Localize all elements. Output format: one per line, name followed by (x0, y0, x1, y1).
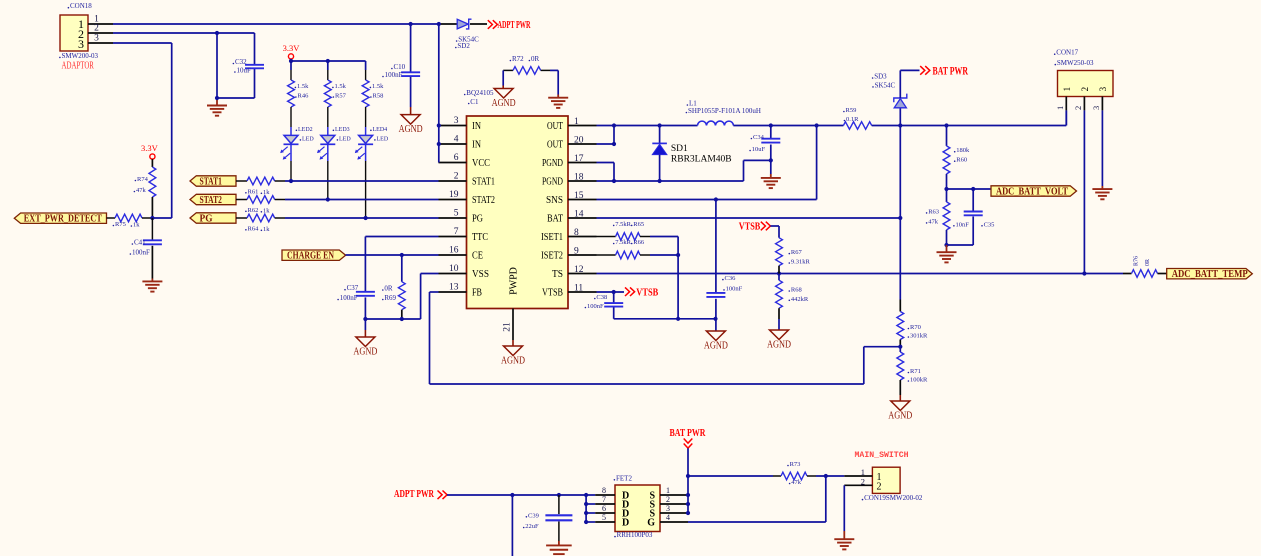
svg-text:G: G (647, 518, 655, 529)
svg-text:TTC: TTC (472, 232, 488, 243)
svg-text:ADC_BATT_TEMP: ADC_BATT_TEMP (1172, 269, 1248, 280)
svg-text:C34: C34 (753, 134, 765, 141)
svg-text:13: 13 (449, 282, 459, 292)
svg-text:VTSB: VTSB (636, 286, 658, 298)
svg-text:12: 12 (574, 265, 584, 275)
svg-text:PG: PG (472, 214, 483, 225)
svg-text:MAIN_SWITCH: MAIN_SWITCH (855, 451, 909, 460)
svg-text:6: 6 (454, 153, 459, 163)
svg-text:STAT2: STAT2 (200, 195, 222, 206)
svg-text:EXT_PWR_DETECT: EXT_PWR_DETECT (24, 214, 102, 225)
svg-text:SK54C: SK54C (875, 81, 896, 89)
svg-text:BAT PWR: BAT PWR (670, 428, 706, 439)
svg-text:SHP1055P-F101A 100uH: SHP1055P-F101A 100uH (688, 107, 761, 115)
svg-text:IN: IN (472, 121, 481, 132)
svg-text:2: 2 (454, 171, 459, 181)
svg-text:10nF: 10nF (956, 221, 970, 228)
svg-text:3: 3 (454, 116, 459, 126)
svg-text:SD1: SD1 (671, 144, 688, 154)
svg-text:AGND: AGND (501, 356, 525, 367)
svg-text:1.5k: 1.5k (297, 83, 309, 90)
svg-text:100nF: 100nF (587, 303, 604, 310)
svg-text:LED: LED (302, 136, 314, 142)
svg-text:1k: 1k (263, 226, 270, 233)
svg-text:1.5k: 1.5k (335, 83, 347, 90)
svg-text:R75: R75 (115, 221, 126, 228)
svg-text:R61: R61 (248, 188, 259, 195)
svg-text:100nF: 100nF (385, 71, 403, 79)
svg-text:R57: R57 (335, 93, 347, 100)
svg-text:7.5kR: 7.5kR (615, 221, 631, 228)
svg-text:8: 8 (602, 486, 606, 495)
svg-text:OUT: OUT (547, 140, 563, 151)
svg-text:AGND: AGND (767, 340, 791, 351)
svg-text:1k: 1k (263, 189, 270, 196)
svg-text:3.3V: 3.3V (141, 143, 159, 153)
svg-text:1: 1 (1055, 106, 1065, 110)
svg-text:R71: R71 (910, 368, 921, 375)
svg-text:1k: 1k (133, 222, 140, 229)
svg-text:BAT: BAT (547, 214, 563, 225)
svg-text:FET2: FET2 (616, 474, 632, 482)
svg-text:SMW200-03: SMW200-03 (62, 52, 99, 60)
svg-text:1k: 1k (263, 207, 270, 214)
svg-text:7.5kR: 7.5kR (615, 239, 631, 246)
svg-text:VTSB: VTSB (542, 288, 563, 299)
svg-text:3: 3 (1091, 106, 1101, 110)
svg-text:21: 21 (503, 322, 513, 332)
svg-text:5: 5 (602, 513, 606, 522)
svg-text:8: 8 (574, 228, 579, 238)
svg-text:C35: C35 (984, 221, 995, 228)
svg-text:AGND: AGND (353, 347, 377, 358)
svg-text:C41: C41 (134, 239, 146, 247)
svg-text:BAT PWR: BAT PWR (933, 65, 969, 77)
svg-text:100nF: 100nF (340, 294, 358, 302)
svg-text:1: 1 (574, 117, 579, 127)
svg-text:STAT1: STAT1 (200, 176, 222, 187)
svg-text:PGND: PGND (542, 158, 563, 169)
svg-text:4: 4 (666, 513, 670, 522)
svg-text:LED3: LED3 (335, 127, 350, 133)
svg-text:STAT1: STAT1 (472, 177, 495, 188)
svg-text:3.3V: 3.3V (283, 43, 301, 53)
svg-text:SMW250-03: SMW250-03 (1057, 59, 1094, 67)
svg-text:AGND: AGND (704, 341, 728, 352)
svg-text:CE: CE (472, 251, 483, 262)
svg-text:C37: C37 (347, 284, 359, 292)
svg-text:7: 7 (454, 227, 459, 237)
svg-text:D: D (622, 518, 629, 529)
svg-text:17: 17 (574, 154, 584, 164)
svg-text:301kR: 301kR (910, 333, 928, 340)
svg-text:ADC_BATT_VOLT: ADC_BATT_VOLT (996, 186, 1068, 197)
svg-text:R65: R65 (633, 221, 644, 228)
svg-text:ISET1: ISET1 (541, 232, 563, 243)
svg-text:R64: R64 (248, 225, 260, 232)
svg-text:7: 7 (602, 495, 606, 504)
svg-text:2: 2 (1080, 87, 1090, 92)
svg-text:47k: 47k (136, 187, 147, 194)
svg-text:R76: R76 (1134, 256, 1140, 266)
svg-text:1: 1 (1062, 87, 1072, 92)
svg-text:ADPT PWR: ADPT PWR (498, 20, 531, 31)
svg-text:0R: 0R (1145, 259, 1151, 266)
svg-text:4: 4 (454, 134, 459, 144)
svg-text:15: 15 (574, 191, 584, 201)
svg-text:CON17: CON17 (1056, 49, 1078, 57)
svg-text:47k: 47k (791, 479, 802, 486)
svg-text:SD2: SD2 (457, 42, 470, 50)
svg-text:R72: R72 (512, 55, 524, 63)
svg-text:0R: 0R (384, 285, 393, 293)
svg-text:FB: FB (472, 288, 482, 299)
svg-text:AGND: AGND (888, 411, 912, 422)
svg-text:LED2: LED2 (298, 127, 313, 133)
svg-text:100kR: 100kR (910, 377, 928, 384)
svg-text:TS: TS (552, 269, 563, 280)
svg-text:14: 14 (574, 209, 584, 219)
svg-text:PG: PG (200, 213, 213, 224)
svg-text:AGND: AGND (399, 124, 423, 135)
svg-text:R70: R70 (910, 324, 921, 331)
svg-text:47k: 47k (928, 218, 939, 225)
svg-text:2: 2 (877, 482, 882, 493)
svg-text:2: 2 (861, 476, 865, 486)
svg-text:0.1R: 0.1R (846, 116, 859, 123)
svg-text:442kR: 442kR (791, 296, 809, 303)
svg-text:C36: C36 (725, 275, 737, 282)
svg-text:22uF: 22uF (525, 523, 539, 530)
svg-text:6: 6 (602, 504, 606, 513)
svg-text:2: 2 (666, 495, 670, 504)
svg-text:5: 5 (454, 208, 459, 218)
svg-text:R59: R59 (846, 107, 857, 114)
svg-text:R63: R63 (928, 208, 939, 215)
svg-text:PGND: PGND (542, 177, 563, 188)
svg-text:10uF: 10uF (752, 146, 766, 153)
svg-text:R46: R46 (298, 93, 310, 100)
svg-text:ADAPTOR: ADAPTOR (62, 61, 95, 72)
svg-text:IN: IN (472, 140, 481, 151)
svg-text:0R: 0R (531, 55, 540, 63)
svg-text:ADPT PWR: ADPT PWR (394, 489, 434, 500)
svg-text:100nF: 100nF (132, 249, 150, 257)
svg-text:10uF: 10uF (237, 67, 252, 75)
svg-text:R60: R60 (956, 157, 967, 164)
svg-text:100nF: 100nF (726, 285, 743, 292)
svg-text:C10: C10 (394, 63, 406, 71)
svg-text:1: 1 (666, 486, 670, 495)
svg-text:VSS: VSS (472, 269, 489, 280)
svg-text:C39: C39 (528, 512, 539, 519)
svg-text:C38: C38 (596, 294, 607, 301)
svg-text:RBR3LAM40B: RBR3LAM40B (671, 155, 732, 165)
svg-text:19: 19 (449, 190, 459, 200)
svg-text:R67: R67 (791, 249, 803, 256)
svg-text:3: 3 (666, 504, 670, 513)
svg-text:11: 11 (574, 283, 583, 293)
svg-text:16: 16 (449, 245, 459, 255)
svg-text:OUT: OUT (547, 121, 563, 132)
svg-text:STAT2: STAT2 (472, 195, 495, 206)
svg-text:ISET2: ISET2 (541, 251, 563, 262)
svg-text:PWPD: PWPD (509, 267, 520, 295)
svg-text:20: 20 (574, 135, 584, 145)
svg-text:2: 2 (1073, 106, 1083, 110)
svg-text:1.5k: 1.5k (372, 83, 384, 90)
svg-text:2: 2 (94, 24, 99, 34)
svg-text:10: 10 (449, 264, 459, 274)
svg-text:3: 3 (1098, 86, 1108, 91)
svg-text:3: 3 (94, 34, 99, 44)
svg-text:AGND: AGND (492, 98, 516, 109)
svg-text:CON18: CON18 (70, 2, 92, 10)
svg-text:R62: R62 (248, 207, 259, 214)
svg-text:3: 3 (78, 37, 84, 51)
svg-text:180k: 180k (956, 147, 970, 154)
svg-text:C32: C32 (235, 58, 247, 66)
svg-text:R73: R73 (790, 461, 801, 468)
svg-text:R58: R58 (373, 93, 384, 100)
svg-text:LED: LED (339, 136, 351, 142)
svg-text:VTSB: VTSB (739, 220, 761, 232)
svg-text:R68: R68 (791, 287, 802, 294)
svg-text:R66: R66 (633, 239, 645, 246)
svg-text:LED4: LED4 (373, 127, 388, 133)
svg-text:BQ24105: BQ24105 (466, 89, 494, 97)
svg-text:C1: C1 (470, 98, 479, 106)
svg-text:SD3: SD3 (874, 73, 887, 81)
svg-text:R69: R69 (384, 294, 396, 302)
svg-text:CON19SMW200-02: CON19SMW200-02 (864, 494, 923, 502)
svg-text:SNS: SNS (546, 195, 563, 206)
svg-text:R74: R74 (137, 176, 149, 183)
svg-text:9.31kR: 9.31kR (791, 259, 811, 266)
svg-text:9: 9 (574, 246, 579, 256)
svg-text:VCC: VCC (472, 158, 490, 169)
svg-text:RRH100P03: RRH100P03 (617, 531, 653, 539)
svg-text:18: 18 (574, 172, 584, 182)
svg-text:LED: LED (377, 136, 389, 142)
svg-text:CHARGE EN: CHARGE EN (287, 251, 334, 262)
